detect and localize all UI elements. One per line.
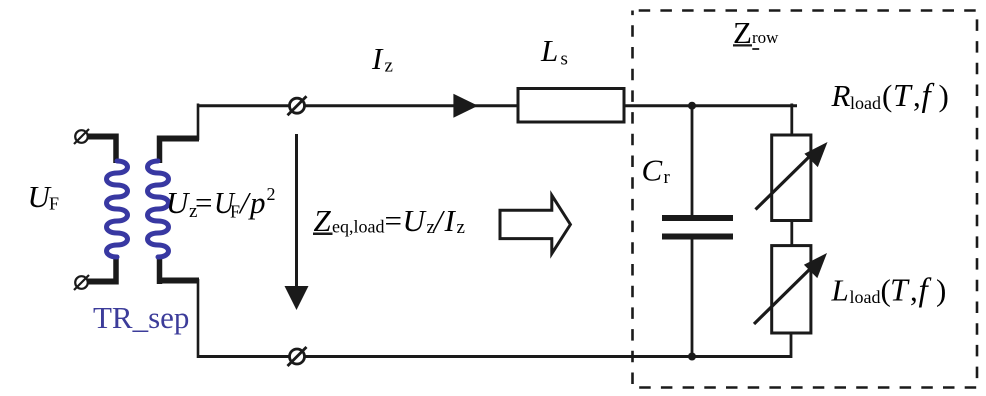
svg-text:R: R — [831, 78, 851, 113]
svg-text:F: F — [49, 194, 59, 214]
svg-text:eq,load: eq,load — [332, 216, 384, 236]
svg-text:,: , — [913, 78, 921, 113]
svg-text:row: row — [752, 28, 779, 47]
svg-text:TR_sep: TR_sep — [93, 300, 189, 335]
svg-text:=: = — [195, 185, 212, 220]
svg-text:L: L — [540, 33, 558, 68]
svg-text:s: s — [561, 49, 568, 70]
svg-text:T: T — [893, 77, 913, 113]
svg-text:(: ( — [882, 78, 892, 113]
svg-text:U: U — [166, 185, 191, 220]
svg-text:r: r — [664, 167, 671, 188]
svg-text:L: L — [831, 272, 849, 307]
svg-text:p: p — [248, 185, 266, 220]
svg-text:,: , — [910, 272, 918, 307]
svg-text:I: I — [371, 41, 384, 76]
svg-text:=: = — [385, 203, 402, 238]
svg-text:load: load — [850, 93, 881, 113]
svg-text:z: z — [385, 56, 393, 77]
svg-text:): ) — [936, 272, 946, 307]
svg-text:): ) — [939, 78, 949, 113]
svg-text:T: T — [890, 271, 910, 307]
svg-text:I: I — [444, 203, 457, 238]
svg-text:F: F — [230, 201, 240, 221]
svg-text:z: z — [457, 217, 465, 238]
svg-text:load: load — [850, 287, 881, 307]
svg-text:U: U — [403, 203, 428, 238]
svg-text:2: 2 — [267, 184, 276, 204]
svg-text:C: C — [642, 153, 663, 188]
